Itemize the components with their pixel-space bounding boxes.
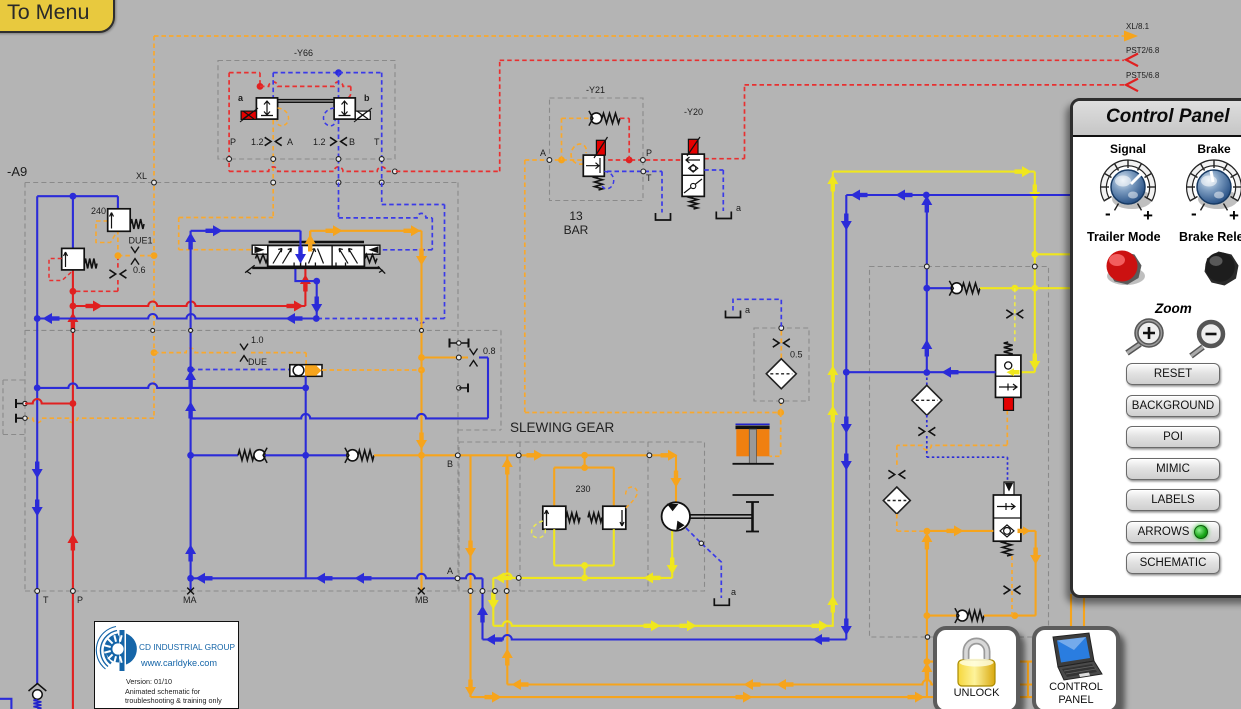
button ARROWS <box>1126 521 1220 543</box>
wire red dashed P-pilot of -Y66 <box>228 73 230 172</box>
button POI <box>1126 426 1220 448</box>
svg-text:XL: XL <box>136 171 147 181</box>
icon padlock <box>966 641 987 663</box>
svg-text:PST2/6.8: PST2/6.8 <box>1126 46 1160 55</box>
wire yellow long return to brake stack <box>493 621 834 626</box>
nodes blue pilots at -A9 boundary <box>336 180 341 185</box>
enclosure -Y21 dashed box <box>550 98 644 201</box>
button Trailer Mode (red) <box>1107 251 1146 286</box>
solenoid -Y20 <box>688 139 698 154</box>
svg-text:P: P <box>230 137 236 147</box>
wire blue dashed pilot inner path to main valve right cap <box>338 183 340 218</box>
orifice below filter <box>918 427 935 435</box>
knob control <box>1187 160 1241 210</box>
ear loop DUE valve red <box>49 259 73 281</box>
wire blue up to main valve P <box>190 231 192 591</box>
wire blue dashed b-pilot of -Y66 <box>273 72 338 74</box>
main valve port flow arrows overlay <box>299 231 301 262</box>
button SCHEMATIC <box>1126 552 1220 574</box>
svg-text:P: P <box>77 595 83 605</box>
svg-text:a: a <box>745 305 750 315</box>
wire orange riser x926.9 <box>926 531 928 697</box>
svg-text:-Y21: -Y21 <box>586 85 605 95</box>
relief valve 230 right <box>603 506 626 529</box>
wire blue riser x927 <box>926 195 928 373</box>
wire yellow branch to panel y254 <box>1035 253 1070 255</box>
test point DUE 0.8 <box>470 349 478 355</box>
orifice 1.2 (A) <box>265 137 282 145</box>
svg-text:a: a <box>731 587 736 597</box>
svg-text:-Y66: -Y66 <box>294 48 313 58</box>
svg-text:troubleshooting & training onl: troubleshooting & training only <box>125 696 222 705</box>
wire red distribution to main valve <box>73 302 306 307</box>
red dashed P-line -Y21 to -Y20 <box>601 159 682 161</box>
wire orange between buttons <box>1027 662 1029 698</box>
wire DUE1 orange dashed branch <box>117 230 119 256</box>
test port lower (orange) <box>15 414 17 423</box>
valve -Y66 right block <box>334 98 355 119</box>
wire orange out of main valve to B-side <box>309 231 311 244</box>
svg-text:-A9: -A9 <box>7 164 27 179</box>
valve -Y66 left block <box>256 98 277 119</box>
orifice 1.2 (B) <box>330 137 347 145</box>
wire XL orange dashed main (top to left ports) <box>154 35 1124 37</box>
wire yellow top run to control valve <box>833 171 1035 173</box>
svg-text:A: A <box>287 137 293 147</box>
button RESET <box>1126 363 1220 385</box>
svg-text:B: B <box>447 459 453 469</box>
solenoid b of -Y66 <box>355 111 370 119</box>
svg-text:Animated schematic for: Animated schematic for <box>125 687 201 696</box>
svg-text:www.carldyke.com: www.carldyke.com <box>140 658 217 668</box>
svg-text:b: b <box>364 93 370 103</box>
wire orange into motor <box>675 455 677 502</box>
junction dots on XL line <box>151 252 158 259</box>
wire blue from PRV to riser <box>846 371 995 373</box>
svg-text:T: T <box>43 595 49 605</box>
svg-text:a: a <box>238 93 244 103</box>
test point DUE1 <box>131 247 139 253</box>
nodes on -A9 bottom edge <box>35 589 40 594</box>
wire blue T-line below to tank check <box>36 591 38 684</box>
valve bottom rail <box>252 267 380 269</box>
svg-text:+: + <box>1143 206 1153 225</box>
node XL at -A9 boundary <box>152 180 157 185</box>
node Y66-A at -A9 boundary <box>271 180 276 185</box>
svg-text:MB: MB <box>415 595 429 605</box>
node brake box top crossings <box>1032 264 1037 269</box>
svg-text:230: 230 <box>575 484 590 494</box>
valve top rail <box>269 241 364 243</box>
svg-text:+: + <box>1229 206 1239 225</box>
svg-text:A: A <box>447 566 453 576</box>
wire blue slew A-line <box>191 574 483 579</box>
wire yellow slew return main <box>493 573 672 578</box>
test port upper (red) <box>15 399 17 408</box>
icon zoom out <box>1191 322 1223 356</box>
wire yellow left drop <box>492 578 494 626</box>
svg-text:1.2: 1.2 <box>313 137 326 147</box>
test point DUE 1.0 <box>240 344 248 350</box>
mechanical link bar <box>278 99 335 101</box>
ear loop below -Y66 left valve <box>277 108 289 126</box>
arrow PST5/6.8 connector <box>1126 79 1138 92</box>
wire Y66 A/B/T drop lines <box>272 120 274 140</box>
ear loop left of -Y66 right valve <box>323 108 335 126</box>
enclosure -A9 internal dashed divider <box>25 329 501 331</box>
svg-text:1.0: 1.0 <box>251 335 264 345</box>
svg-text:0.8: 0.8 <box>483 346 496 356</box>
blue corner bottom-left pump suction <box>0 699 11 709</box>
motor case drain to tank a <box>686 528 721 598</box>
wire red dashed bottom of -Y66 to PST2 <box>229 167 394 172</box>
svg-text:-: - <box>1105 204 1111 223</box>
wire orange check line y615 <box>927 615 957 617</box>
svg-text:0.6: 0.6 <box>133 265 146 275</box>
red dashed from check spring down <box>628 118 630 160</box>
orifice on sense line <box>1006 310 1023 318</box>
valve position glyphs <box>273 249 282 264</box>
shuttle valve 1.0 DUE <box>290 365 322 377</box>
wire orange B down-leg x470 <box>469 455 471 697</box>
enclosure slewing-gear dashed box <box>459 442 705 591</box>
svg-text:BAR: BAR <box>564 223 589 237</box>
svg-text:a: a <box>736 203 741 213</box>
arrow PST2/6.8 connector <box>1126 54 1138 67</box>
ear loop 230 left valve <box>532 521 546 538</box>
wire blue dotted to brake release pilot <box>926 436 928 457</box>
wire 240-valve ear loop <box>96 221 118 243</box>
svg-text:Version: 01/10: Version: 01/10 <box>126 677 172 686</box>
check valve signal line y288 <box>927 287 951 289</box>
enclosure -A9 dashed boundary <box>25 182 458 184</box>
arrow XL/8.1 connector <box>1124 31 1138 42</box>
wire yellow 230 return U <box>553 529 555 565</box>
svg-text:SLEWING GEAR: SLEWING GEAR <box>510 420 615 435</box>
enclosure test-port sub-box <box>3 379 25 381</box>
relief valve 240 <box>108 209 131 232</box>
node at 0.5 box top and bottom <box>779 326 784 331</box>
svg-text:13: 13 <box>569 209 583 223</box>
wire orange through brake release valve y531 <box>927 530 994 532</box>
wire blue dashed motor-brake tank a (0.5 box) <box>733 299 781 328</box>
wire blue tall riser x846 <box>845 195 847 640</box>
wire check-valve crossover line y455 <box>191 454 238 456</box>
button LABELS <box>1126 489 1220 511</box>
wire blue dashed -Y20 to tank a <box>704 169 723 171</box>
arrow blue down x37 <box>32 469 43 479</box>
svg-text:CD INDUSTRIAL GROUP: CD INDUSTRIAL GROUP <box>139 642 236 652</box>
valve port ticks <box>293 263 295 268</box>
plug fitting lower <box>457 386 461 390</box>
wire orange bottom return y697 <box>471 696 927 698</box>
button To Menu <box>0 0 115 33</box>
svg-text:-: - <box>1191 204 1197 223</box>
ear loop 230 right valve <box>626 487 638 508</box>
svg-text:Trailer Mode: Trailer Mode <box>1087 230 1161 244</box>
icon zoom in <box>1127 321 1162 354</box>
svg-text:T: T <box>646 173 652 183</box>
wire orange 230 relief header <box>584 455 586 467</box>
valve right pilot cap <box>364 245 380 254</box>
solenoid red below PRV <box>1004 397 1014 410</box>
svg-text:DUE: DUE <box>248 357 267 367</box>
svg-text:Zoom: Zoom <box>1154 301 1192 316</box>
wire blue dashed to shuttle valve <box>191 369 290 371</box>
wire yellow tall riser x833 <box>832 172 834 626</box>
wire yellow dashed sense to PRV spring <box>1014 288 1016 344</box>
enclosure 0.5-filter dashed box <box>754 328 809 401</box>
node brake box bottom <box>925 635 929 639</box>
nodes on -Y66 box bottom <box>227 157 232 162</box>
wire orange bottom return y684 <box>507 680 1035 685</box>
wire orange dashed DUE sense line (1.0) <box>154 348 237 352</box>
red dashed PST5 line <box>704 158 744 160</box>
orifice drain <box>888 470 905 478</box>
main proportional valve body <box>268 245 365 266</box>
relief valve 230 left <box>543 506 566 529</box>
-Y21 check valve <box>591 113 602 124</box>
panel header <box>1073 101 1241 137</box>
wire orange stubs below panel <box>1070 594 1072 628</box>
wire blue dashed -Y21 T to tank <box>607 170 662 172</box>
nodes on y330 divider <box>71 328 75 332</box>
svg-text:1.2: 1.2 <box>251 137 264 147</box>
wire blue MB line y418 <box>191 414 488 419</box>
knob control <box>1101 160 1155 210</box>
svg-text:240: 240 <box>91 206 106 216</box>
-Y20 valve body <box>682 154 704 196</box>
svg-text:Brake Relea: Brake Relea <box>1179 230 1241 244</box>
logo box CD Industrial Group <box>94 621 239 709</box>
wire blue dashed pilot outer path <box>381 183 383 205</box>
wire orange dashed PRV drain <box>1006 410 1008 445</box>
node A at -Y21 box edge <box>547 158 552 163</box>
enclosure brake-circuit dashed box <box>870 267 1049 638</box>
orifice above 0.5 filter <box>773 339 790 347</box>
node red line exits -Y66 box <box>393 169 398 174</box>
-Y21 spring and drain ear <box>595 176 603 190</box>
button UNLOCK <box>933 626 1020 709</box>
wire yellow into PRV right port <box>1021 371 1035 373</box>
wire blue top run y195 <box>846 194 1070 196</box>
svg-text:T: T <box>374 137 380 147</box>
svg-text:0.5: 0.5 <box>790 350 803 360</box>
ports MA MB markers <box>187 588 194 595</box>
logo mark <box>96 627 118 670</box>
motor shaft to gear <box>690 514 753 516</box>
ear loop -Y21 pilot <box>571 144 586 164</box>
wire 0.5 filter line <box>780 401 782 413</box>
wire blue return line y318 <box>37 314 316 319</box>
pressure reducing valve (brake PRV) <box>1004 342 1013 355</box>
svg-text:XL/8.1: XL/8.1 <box>1126 22 1150 31</box>
enclosure -Y66 dashed box <box>218 61 395 160</box>
wire orange dashed from shuttle to B-line <box>322 369 422 371</box>
svg-text:B: B <box>349 137 355 147</box>
button Brake Release (black) <box>1205 252 1239 286</box>
pilot-to-open check at tank <box>29 684 47 692</box>
svg-text:P: P <box>646 148 652 158</box>
wire orange dashed valve sense <box>1011 556 1013 616</box>
button MIMIC <box>1126 458 1220 480</box>
wire blue main-valve A/B jog <box>295 268 316 318</box>
wire 0.6 red dashed to T-line <box>117 280 119 291</box>
orifice 0.6 <box>109 270 126 278</box>
wire orange y661 under buttons <box>927 661 1070 663</box>
wire blue shuttle output down <box>305 376 307 578</box>
icon laptop <box>1053 633 1094 667</box>
-Y20 spring <box>690 196 698 209</box>
wire red pressure line from DUE valve <box>72 270 74 306</box>
red line port to P-riser <box>25 399 73 404</box>
wire blue long return line <box>483 635 847 640</box>
wire orange pilot from Y66-A to main valve <box>272 159 274 218</box>
button BACKGROUND <box>1126 395 1220 417</box>
svg-text:A: A <box>540 148 546 158</box>
plug fitting at 0.8 box <box>449 339 451 348</box>
wire blue y388 gauge line <box>37 383 306 388</box>
wire orange to brake cylinder <box>770 413 781 457</box>
wire orange B-branch to test point <box>422 356 469 358</box>
svg-text:-Y20: -Y20 <box>684 107 703 117</box>
button CONTROL PANEL <box>1032 626 1120 709</box>
knob labels <box>1093 142 1163 156</box>
wire -Y21 pilot to check valve <box>561 118 563 160</box>
wire blue supply top-left <box>37 195 118 197</box>
wire orange A-line of -Y21 down to cylinder area <box>525 159 584 161</box>
wire orange B to slewing block <box>422 454 677 456</box>
brake release valve <box>1004 482 1014 495</box>
filter diamond lower <box>883 487 910 514</box>
wire yellow from motor down <box>671 531 673 578</box>
valve DUE (pressure switch block) <box>62 248 84 270</box>
solenoid a of -Y66 (energized) <box>241 111 256 119</box>
brake cylinder (spring-applied) <box>736 423 770 425</box>
nodes on slew box bottom <box>468 589 473 594</box>
control panel <box>1070 98 1241 598</box>
hydraulic motor <box>662 502 690 530</box>
wire red P-line down to pump <box>72 306 74 709</box>
solenoid -Y21 <box>596 140 605 155</box>
wire orange x507 leg <box>506 455 508 684</box>
filter 0.5 diamond <box>766 359 796 389</box>
filter diamond upper x927 <box>926 373 928 386</box>
svg-text:PST5/6.8: PST5/6.8 <box>1126 71 1160 80</box>
svg-text:DUE1: DUE1 <box>129 236 153 246</box>
svg-text:MA: MA <box>183 595 197 605</box>
-Y21 pilot valve body <box>583 155 604 176</box>
valve left pilot cap <box>252 245 268 254</box>
